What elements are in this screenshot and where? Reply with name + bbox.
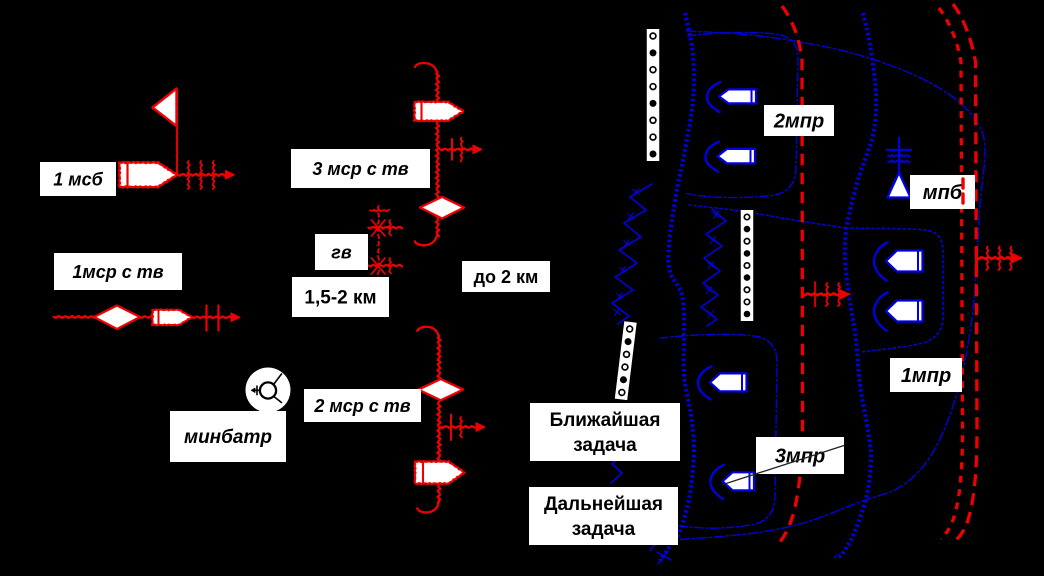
- dashed line of gv: [370, 206, 389, 278]
- company arrow symbol 3 msr: [414, 101, 463, 121]
- label "Ближайшая задача": [530, 403, 680, 461]
- svg-text:2мпр: 2мпр: [773, 111, 824, 133]
- mortar battery symbol: [246, 368, 291, 413]
- BMP position 6 (3mpr lower): [710, 465, 754, 499]
- label "3 мср с тв": [291, 149, 430, 188]
- barbed wire zigzag 1: [612, 184, 652, 324]
- tick arrow of 2 msr: [441, 415, 485, 441]
- battalion area ellipse: [651, 31, 985, 552]
- barbed wire zigzag 2: [701, 209, 726, 326]
- front trench line 1: [657, 13, 694, 564]
- barbed wire zigzag 3: [611, 455, 622, 483]
- label "3мпр": [756, 437, 844, 474]
- label "мпб": [910, 175, 975, 209]
- svg-text:3 мср с тв: 3 мср с тв: [312, 159, 408, 179]
- label "гв": [315, 234, 368, 270]
- label "минбатр": [170, 411, 286, 462]
- label "1мср с тв": [54, 253, 182, 290]
- bottom hook of 2 msr line: [417, 499, 439, 513]
- svg-text:3мпр: 3мпр: [775, 446, 825, 468]
- battalion arrow symbol 1 msb: [119, 162, 177, 188]
- svg-text:задача: задача: [573, 435, 637, 456]
- svg-text:мпб: мпб: [923, 182, 963, 204]
- red dashed boundary left: [780, 6, 803, 542]
- flag pennant of 1 msb: [153, 89, 177, 127]
- red dashed boundary inner: [939, 8, 963, 539]
- deployment line of 2 msr: [438, 336, 441, 503]
- svg-text:гв: гв: [331, 242, 352, 262]
- BMP position 5 (3mpr upper): [698, 366, 747, 399]
- diamond of 3 msr: [420, 197, 464, 219]
- label "1,5-2 км": [292, 277, 389, 317]
- line of departure mark 2 (gv): [369, 258, 403, 274]
- tick arrow of 1 msr: [192, 306, 240, 331]
- pointer line to 3mpr: [723, 446, 844, 485]
- line of departure mark 1 (gv): [369, 220, 403, 236]
- BMP position 2 (2mpr): [705, 142, 755, 172]
- diamond of 2 msr: [419, 379, 464, 400]
- svg-text:задача: задача: [572, 519, 636, 540]
- company arrow symbol 2 msr: [415, 461, 465, 484]
- minefield bar 1: [647, 29, 660, 161]
- company arrow symbol 1 msr: [152, 309, 192, 325]
- bottom hook of 3 msr line: [415, 231, 438, 245]
- top hook of 2 msr line: [417, 327, 439, 340]
- minefield bar 2: [615, 321, 637, 400]
- svg-text:1мср с тв: 1мср с тв: [72, 262, 163, 282]
- svg-text:2 мср с тв: 2 мср с тв: [313, 396, 410, 416]
- svg-text:1 мсб: 1 мсб: [53, 169, 103, 189]
- attack direction arrow right: [977, 247, 1023, 271]
- minefield bar 3: [741, 210, 754, 321]
- label "Дальнейшая задача": [529, 487, 678, 545]
- recon line of 1 msr: [54, 316, 95, 318]
- 2mpr position boundary: [687, 32, 798, 197]
- 3mpr position boundary: [660, 334, 777, 528]
- label "2мпр": [764, 105, 834, 136]
- link line of 1 msr: [140, 316, 153, 318]
- svg-text:1мпр: 1мпр: [901, 365, 951, 387]
- BMP position 1 (2mpr): [707, 82, 756, 112]
- attack direction arrow middle: [803, 282, 850, 307]
- svg-text:1,5-2 км: 1,5-2 км: [304, 288, 376, 309]
- top hook of 3 msr line: [415, 63, 438, 77]
- label "1мпр": [890, 358, 962, 392]
- BMP position 3 (1mpr upper): [874, 243, 923, 281]
- label "1 мсб": [40, 162, 116, 196]
- svg-text:Дальнейшая: Дальнейшая: [544, 494, 663, 515]
- label "до 2 км": [462, 261, 550, 292]
- 1mpr position boundary: [846, 228, 943, 352]
- svg-text:минбатр: минбатр: [184, 427, 272, 448]
- red dash over mpb label: [961, 179, 964, 205]
- position depth dotted line: [689, 205, 845, 228]
- assault line arrow of 1 msb: [178, 161, 235, 189]
- svg-text:Ближайшая: Ближайшая: [550, 410, 661, 431]
- red dashed boundary outer: [953, 4, 977, 543]
- diamond of 1 msr: [94, 306, 140, 330]
- svg-text:до 2 км: до 2 км: [474, 267, 539, 287]
- label "2 мср с тв": [304, 389, 421, 422]
- tick arrow of 3 msr: [440, 138, 482, 162]
- BMP position 4 (1mpr lower): [874, 293, 923, 331]
- command post mpb: [887, 138, 911, 198]
- front trench line 2: [835, 13, 876, 557]
- deployment line of 3 msr: [436, 72, 439, 236]
- flag pole of 1 msb: [176, 90, 179, 174]
